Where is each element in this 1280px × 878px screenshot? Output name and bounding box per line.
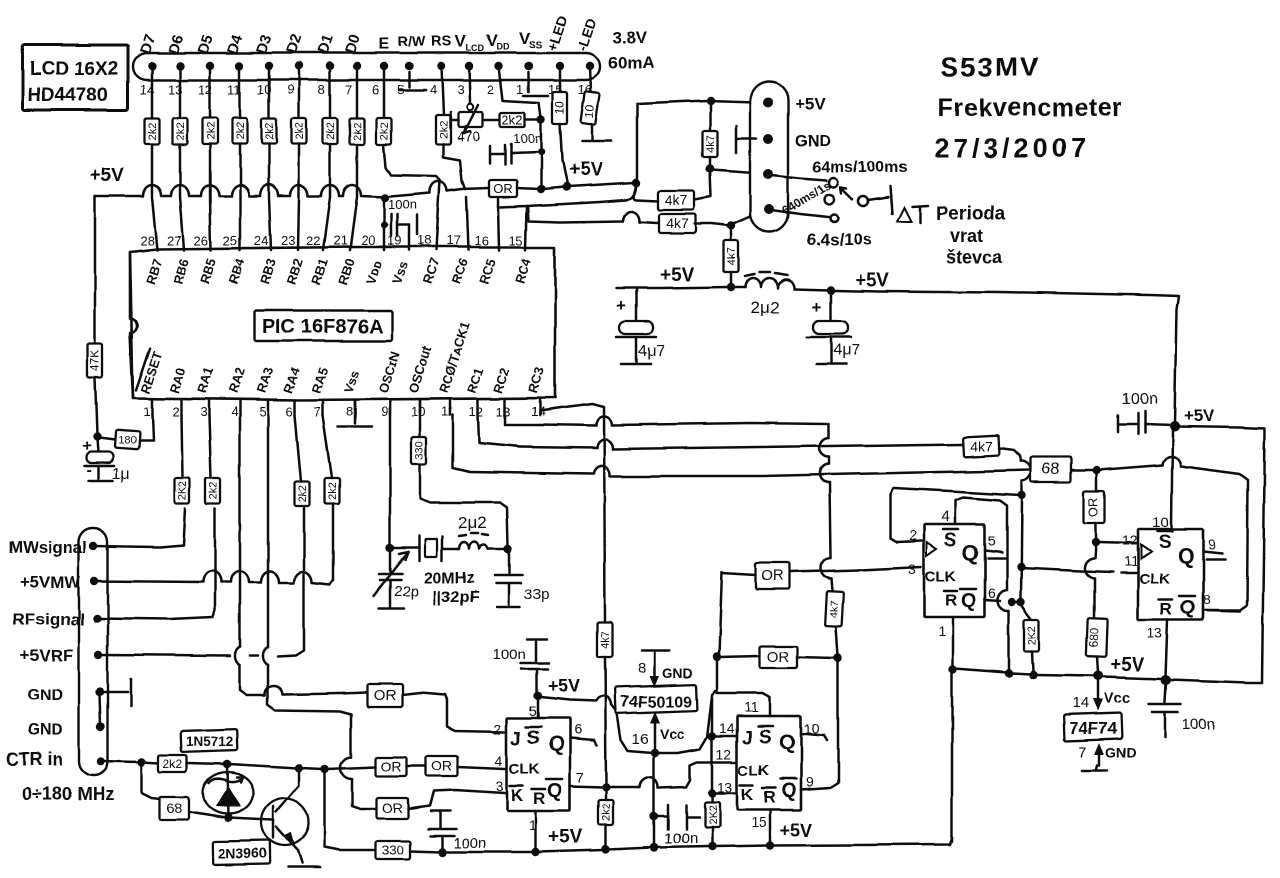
wire 68 to diode bottom node xyxy=(189,812,232,822)
wire E resistor to PIC pin 18 xyxy=(384,144,440,250)
wire DFF1 R pin1 to +5V xyxy=(949,617,957,673)
svg-text:4: 4 xyxy=(231,404,238,419)
svg-text:S53MV: S53MV xyxy=(941,52,1040,82)
wire CLK line DFF2 xyxy=(1021,568,1136,573)
svg-text:Q: Q xyxy=(548,733,564,756)
svg-text:+: + xyxy=(82,438,91,455)
wire node down to Q6 line xyxy=(1017,497,1025,606)
capacitor 100n (74F50109) xyxy=(656,805,699,847)
svg-text:OR: OR xyxy=(767,649,790,666)
svg-text:OR: OR xyxy=(1086,497,1101,517)
svg-text:100n: 100n xyxy=(664,830,697,847)
ground at J3 GND pin xyxy=(736,126,756,153)
diode D1 schottky in circle xyxy=(203,764,253,818)
svg-text:100n: 100n xyxy=(453,835,486,852)
node +5V middle xyxy=(827,286,835,294)
OR box 2 xyxy=(719,646,835,668)
svg-text:2k2: 2k2 xyxy=(352,122,364,140)
svg-text:17: 17 xyxy=(446,233,460,248)
wire VLCD pin to trimmer xyxy=(467,66,473,110)
wire JK1 S pin5 to +5V node xyxy=(534,692,542,718)
svg-text:3: 3 xyxy=(908,561,916,577)
resistor 330 (osc) xyxy=(412,437,427,464)
connector J3 pin dots xyxy=(763,98,774,214)
svg-text:RFsignal: RFsignal xyxy=(13,610,85,629)
resistor 2k2 (E) xyxy=(377,118,392,144)
svg-text:5: 5 xyxy=(988,533,996,549)
svg-text:2k2: 2k2 xyxy=(208,482,220,500)
wire OR chain vertical to DFF1 clk line xyxy=(719,572,756,655)
resistor 2K2 (DFF pullup) xyxy=(1021,604,1040,672)
input connector J2 oval xyxy=(79,528,108,775)
resistor 68 (output) xyxy=(1031,457,1071,482)
OR box 1 xyxy=(367,684,402,707)
wire +LED pin down xyxy=(559,66,562,92)
wire 68 to node xyxy=(1071,466,1101,474)
svg-text:Vcc: Vcc xyxy=(1104,690,1131,707)
JK1 pin labels xyxy=(509,727,564,808)
svg-text:24: 24 xyxy=(254,233,268,248)
svg-text:Perioda: Perioda xyxy=(936,204,1006,225)
capacitor 1u electrolytic xyxy=(82,438,130,483)
svg-text:15: 15 xyxy=(751,814,767,830)
svg-text:GND: GND xyxy=(27,687,63,704)
wire +5V top right segment xyxy=(1169,421,1265,431)
svg-text:19: 19 xyxy=(387,233,401,248)
svg-text:R/W: R/W xyxy=(398,33,426,49)
resistor 330 (bottom) xyxy=(376,841,410,859)
svg-text:7: 7 xyxy=(1079,744,1087,761)
svg-text:vrat: vrat xyxy=(950,226,983,246)
svg-text:-: - xyxy=(805,327,811,346)
wire collector node down to 330 xyxy=(325,771,376,850)
resistor 4k7 (switch pullup) xyxy=(703,103,718,173)
LCD connector pin dots xyxy=(148,62,594,70)
svg-text:4k7: 4k7 xyxy=(829,600,842,618)
connector J2 labels xyxy=(5,538,114,804)
wire pot to 2k2 xyxy=(483,119,500,122)
DFF1 symbols xyxy=(925,529,979,612)
svg-text:8: 8 xyxy=(346,404,353,419)
ground at -LED resistor xyxy=(582,124,611,141)
resistor 68 (CTR) xyxy=(160,797,189,820)
svg-text:16: 16 xyxy=(632,731,649,748)
svg-text:5: 5 xyxy=(259,404,266,419)
+5V bus right segment xyxy=(955,668,1262,683)
wire RA0 resistor to PIC pin2 xyxy=(181,415,182,478)
wire CTR to 68 xyxy=(142,764,160,799)
resistor 47k xyxy=(88,344,103,378)
wire OR1 to JK1 J pin2 xyxy=(402,693,505,732)
resistor 2k2 (CTR) xyxy=(142,755,187,772)
wire 4k7 jog down to D node xyxy=(999,448,1032,499)
svg-text:+: + xyxy=(812,298,822,317)
svg-text:OR: OR xyxy=(381,758,402,774)
ground at PIC pin8 VSS xyxy=(338,400,372,427)
svg-text:MWsignal: MWsignal xyxy=(8,538,87,557)
IC label 74F74 with Vcc GND arrows xyxy=(1064,681,1138,771)
transistor Q1 2N3960 xyxy=(261,785,309,863)
resistor 2k2 (RA0) xyxy=(175,478,190,504)
svg-text:2K2: 2K2 xyxy=(1027,626,1039,646)
svg-text:4μ7: 4μ7 xyxy=(833,342,860,359)
wire OR to +5V node right xyxy=(517,179,640,191)
wire JK2 J pin14 and K pin13 tie xyxy=(708,695,737,797)
svg-text:Frekvencmeter: Frekvencmeter xyxy=(938,94,1122,122)
svg-text:+5V: +5V xyxy=(1110,655,1145,676)
wire 4k7 to OR2 node xyxy=(834,626,842,662)
ground at LCD pin 5 xyxy=(399,72,425,90)
svg-text:1μ: 1μ xyxy=(112,466,130,483)
svg-text:22: 22 xyxy=(306,233,320,248)
wire pullup node to connector pin3 xyxy=(712,170,766,174)
svg-text:Q: Q xyxy=(962,540,979,565)
svg-text:CTR in: CTR in xyxy=(5,749,63,769)
svg-text:1N5712: 1N5712 xyxy=(186,734,233,749)
svg-text:100n: 100n xyxy=(1182,716,1215,733)
wire OR box to pin16 RC5 xyxy=(498,198,499,250)
svg-text:2K2: 2K2 xyxy=(707,805,719,825)
svg-text:8: 8 xyxy=(1203,591,1211,607)
svg-text:6: 6 xyxy=(988,585,996,601)
svg-text:+5V: +5V xyxy=(660,265,695,286)
svg-text:LCD: LCD xyxy=(466,43,485,53)
svg-text:2k2: 2k2 xyxy=(438,121,450,139)
svg-text:1: 1 xyxy=(143,404,150,419)
connector J3 oval xyxy=(750,82,788,232)
OR box (DFF1 clock) xyxy=(756,563,790,589)
svg-text:2k2: 2k2 xyxy=(327,482,339,500)
JK2 pin numbers xyxy=(716,699,820,830)
svg-text:K: K xyxy=(511,786,524,805)
svg-text:J: J xyxy=(742,728,753,749)
svg-text:4k7: 4k7 xyxy=(666,215,689,231)
resistor 2k2 (RA5) xyxy=(323,415,340,580)
wire y1 down right column xyxy=(819,424,833,591)
svg-text:10: 10 xyxy=(411,404,425,419)
svg-text:11: 11 xyxy=(744,699,759,715)
svg-text:1: 1 xyxy=(938,623,946,639)
LCD labels +LED -LED xyxy=(544,14,599,53)
svg-text:3: 3 xyxy=(457,82,464,97)
potentiometer 470 (contrast) xyxy=(450,105,483,144)
resistor 4k7 (spine) xyxy=(598,622,613,657)
svg-text:18: 18 xyxy=(417,233,431,248)
svg-text:3.8V: 3.8V xyxy=(612,28,648,47)
wire 10R to +5V node xyxy=(560,124,567,185)
svg-text:S: S xyxy=(944,530,957,551)
svg-text:2N3960: 2N3960 xyxy=(218,845,267,861)
wire -LED pin down xyxy=(590,66,591,92)
+5V label top-left xyxy=(90,165,125,186)
JK2 pin labels xyxy=(738,726,797,807)
inductor L1 2u2 xyxy=(442,513,506,549)
resistor 2k2 (LCD data 1) xyxy=(145,118,160,144)
svg-text:+5V: +5V xyxy=(1183,406,1214,425)
PIC top pin numbers xyxy=(140,233,523,248)
connector J2 pin dots xyxy=(90,542,105,765)
wire RS resistor to OR node xyxy=(443,144,462,181)
wire Vcc node down to 100n and +5V xyxy=(650,755,658,846)
wire JK1 Q7 to JK2 CLK12 xyxy=(570,762,735,788)
svg-text:S: S xyxy=(1158,532,1171,553)
svg-text:2: 2 xyxy=(487,82,494,97)
svg-text:4μ7: 4μ7 xyxy=(638,343,665,360)
resistor 2k2 (spine pullup) xyxy=(599,789,614,847)
+5V bus wire with wire hops xyxy=(95,181,489,197)
svg-text:+5VRF: +5VRF xyxy=(20,646,73,665)
flip-flop U3a 74F74 DFF1 body xyxy=(924,524,985,617)
+5V label top right xyxy=(1183,406,1214,425)
+5V label right bus xyxy=(1110,655,1145,676)
OR box 5 xyxy=(426,756,458,776)
resistor 2k2 (JK2 pullup) xyxy=(705,795,720,845)
resistor 2k2 (LCD data 7) xyxy=(323,118,338,144)
wire MWsignal to 2k2/RA0 xyxy=(94,509,185,547)
PIC label box xyxy=(254,310,392,341)
svg-text:33p: 33p xyxy=(524,586,549,603)
svg-text:27: 27 xyxy=(167,233,181,248)
svg-text:OR: OR xyxy=(382,800,403,816)
+5V label JK1 xyxy=(548,676,581,696)
ground at transistor emitter xyxy=(288,866,320,869)
svg-text:GND: GND xyxy=(662,665,693,681)
switch labels xyxy=(779,159,907,249)
wire spine below 4k7 xyxy=(602,657,610,791)
svg-text:4k7: 4k7 xyxy=(970,438,993,454)
svg-text:R: R xyxy=(1160,600,1172,619)
JK1 pin numbers xyxy=(494,703,584,833)
wire +5V from middle to top right xyxy=(834,290,1178,424)
svg-text:Q: Q xyxy=(781,780,797,802)
resistor 4k7 (to D-FF1) xyxy=(963,435,1000,457)
flip-flop U2b 74F50109 JK2 body xyxy=(737,716,801,810)
svg-text:100n: 100n xyxy=(1122,391,1158,408)
svg-text:470: 470 xyxy=(457,128,481,144)
capacitor 100n (JK1 top) xyxy=(492,639,549,694)
svg-text:5: 5 xyxy=(529,703,537,719)
+5V label bottom middle xyxy=(548,827,583,848)
+5V label middle xyxy=(855,270,890,291)
DFF2 pin numbers xyxy=(1122,514,1216,641)
svg-text:Q: Q xyxy=(961,590,977,612)
resistor 2k2 (contrast) xyxy=(500,113,525,128)
flip-flop U3b 74F74 DFF2 body xyxy=(1138,529,1203,620)
node crystal right xyxy=(504,545,512,553)
capacitor 4u7 (right) xyxy=(805,292,860,364)
delta T label xyxy=(897,204,1006,267)
svg-text:R: R xyxy=(763,788,775,807)
svg-text:LCD 16X2: LCD 16X2 xyxy=(30,59,119,80)
PIC bottom pin numbers xyxy=(143,404,545,419)
inductor L2 2u2 xyxy=(727,272,829,317)
svg-text:Q: Q xyxy=(547,780,563,802)
svg-text:2k2: 2k2 xyxy=(163,757,183,771)
svg-text:GND: GND xyxy=(27,722,63,739)
svg-text:OR: OR xyxy=(493,181,513,196)
svg-text:12: 12 xyxy=(716,746,732,762)
svg-text:števca: števca xyxy=(946,247,1003,267)
wire OR node to pin17 xyxy=(462,181,468,250)
switch S1 contact 6.4s xyxy=(771,210,838,222)
resistor 180 (reset) xyxy=(99,430,140,450)
wire LCD VDD pin to node xyxy=(499,66,541,118)
ground arrow 74F50109 pin8 xyxy=(637,651,693,688)
trimmer capacitor 22p xyxy=(373,548,419,609)
wire +5V bus bottom right riser xyxy=(951,671,954,841)
wire RA3 down xyxy=(263,415,376,809)
wire OSCout to 330 xyxy=(419,400,422,437)
svg-text:S: S xyxy=(759,727,772,748)
svg-text:4: 4 xyxy=(941,508,949,525)
svg-text:2k2: 2k2 xyxy=(205,122,217,140)
svg-text:DD: DD xyxy=(497,42,510,52)
wire diode to transistor base xyxy=(228,818,272,820)
OR box (DFF2, vertical) xyxy=(1084,472,1105,546)
IC U1 PIC16F876A body xyxy=(130,247,555,400)
wire JK2 R pin15 to +5V xyxy=(769,810,772,843)
svg-text:CLK: CLK xyxy=(738,762,769,779)
svg-text:4k7: 4k7 xyxy=(665,192,688,208)
svg-text:GND: GND xyxy=(795,133,831,150)
wire bus to PIC pin 20 VDD xyxy=(383,198,386,250)
wire RC1 pin12 bus y2 xyxy=(478,415,962,449)
svg-text:12: 12 xyxy=(1122,532,1138,548)
wire RC0 pin11 bus y3 xyxy=(453,415,1031,476)
PIC bottom pin names xyxy=(136,320,548,395)
svg-text:||32pF: ||32pF xyxy=(433,589,480,606)
LCD labels E RW RS VLCD VDD VSS xyxy=(379,29,543,53)
wire node down through hop to 680 xyxy=(1084,544,1096,618)
svg-text:60mA: 60mA xyxy=(608,53,654,72)
svg-text:22p: 22p xyxy=(394,583,419,600)
svg-text:4k7: 4k7 xyxy=(705,135,717,153)
wire +5V top to connector xyxy=(636,104,639,181)
wire DFF1 S pin4 loop to +5V xyxy=(955,497,1009,671)
svg-text:9: 9 xyxy=(1208,536,1216,552)
LCD module label box LCD 16X2 HD44780 xyxy=(23,45,128,110)
svg-text:26: 26 xyxy=(194,233,208,248)
LCD backlight rating 3.8V 60mA xyxy=(608,28,654,72)
ground at GND pin xyxy=(100,679,131,706)
svg-text:100n: 100n xyxy=(513,131,542,146)
svg-text:2μ2: 2μ2 xyxy=(752,298,781,317)
svg-text:330: 330 xyxy=(382,843,404,858)
line B to 4k7 (switch row2) xyxy=(528,206,658,223)
svg-text:23: 23 xyxy=(281,233,295,248)
wire CTR in to split node xyxy=(101,758,146,766)
svg-text:9: 9 xyxy=(806,774,814,790)
wires LCD data pins down to resistors xyxy=(152,66,357,118)
PIC top pin names xyxy=(143,256,535,286)
wire GND link xyxy=(100,694,101,727)
svg-text:CLK: CLK xyxy=(1139,571,1170,588)
svg-text:GND: GND xyxy=(1106,745,1137,761)
wire +5VRF to 2k2/RA4 xyxy=(99,506,304,656)
wire node to DFF2 D pin12 xyxy=(1098,542,1136,543)
svg-text:4: 4 xyxy=(495,753,503,769)
svg-text:15: 15 xyxy=(509,233,523,248)
svg-text:11: 11 xyxy=(1124,553,1139,569)
+5V label left of inductor xyxy=(660,265,695,286)
wire RFsignal to 2k2/RA1 xyxy=(97,509,215,619)
resistor 10 (-LED) xyxy=(581,91,600,125)
resistor 680 xyxy=(1086,618,1107,658)
wire LCD E pin down xyxy=(383,66,386,118)
resistor 2k2 (LCD data 2) xyxy=(173,118,188,144)
svg-text:20: 20 xyxy=(361,233,375,248)
svg-text:HD44780: HD44780 xyxy=(28,85,108,106)
svg-text:10: 10 xyxy=(553,101,567,115)
svg-text:J: J xyxy=(511,729,522,750)
wire row1 to +5V node jog xyxy=(634,185,658,201)
capacitor 100n (LCD supply) xyxy=(490,131,542,164)
svg-text:+5V: +5V xyxy=(795,95,826,114)
svg-text:OR: OR xyxy=(432,758,453,774)
svg-text:2k2: 2k2 xyxy=(147,122,159,140)
svg-text:2k2: 2k2 xyxy=(297,485,309,503)
OR box 3 xyxy=(376,798,408,819)
svg-text:SS: SS xyxy=(529,40,543,51)
LCD connector J1 oval xyxy=(133,53,600,80)
svg-text:PIC 16F876A: PIC 16F876A xyxy=(262,316,383,338)
svg-text:OR: OR xyxy=(762,568,785,585)
svg-text:OR: OR xyxy=(373,687,396,704)
svg-text:2k2: 2k2 xyxy=(502,113,523,128)
PIC bottom pin stub wires xyxy=(152,400,540,415)
svg-text:CLK: CLK xyxy=(509,761,540,778)
svg-text:RS: RS xyxy=(431,33,452,50)
resistor 2k2 (LCD data 5) xyxy=(262,118,277,144)
LCD signal labels D7..D0 xyxy=(137,32,364,56)
svg-text:7: 7 xyxy=(314,404,321,419)
svg-text:K: K xyxy=(741,785,754,804)
wire OSCin to crystal xyxy=(386,400,418,552)
wire diode node to collector node xyxy=(229,764,303,785)
wire to PIC pin 19 VSS xyxy=(408,225,411,250)
wire 47k to reset node xyxy=(93,378,101,441)
resistor 2k2 (LCD data 6) xyxy=(292,118,307,144)
JK2 Q pin10 stub xyxy=(801,734,827,741)
capacitor 100n (top right) xyxy=(1118,391,1172,434)
svg-text:2k2: 2k2 xyxy=(264,122,276,140)
svg-text:20MHz: 20MHz xyxy=(424,570,475,587)
svg-text:R: R xyxy=(533,789,545,808)
svg-text:+5V: +5V xyxy=(855,270,890,291)
wire node down to 4k7 row1 xyxy=(694,171,711,200)
diode D1 1N5712 label xyxy=(181,729,238,752)
resistor 4k7 (divider) xyxy=(724,222,739,285)
switch S1 pole xyxy=(858,186,892,214)
node VDD bus junction xyxy=(381,194,389,202)
svg-text:2k2: 2k2 xyxy=(175,122,187,140)
connector J3 labels xyxy=(795,95,831,150)
wire VDD node down xyxy=(537,122,545,193)
flip-flop U2a 74F50109 JK1 body xyxy=(507,718,570,811)
resistor 2k2 (RA4) xyxy=(295,415,310,506)
line A pin16/pin15 to +5V node xyxy=(499,185,636,207)
wire OR5 to JK1 CLK pin4 xyxy=(458,767,505,769)
wire OR4 to OR5 xyxy=(407,765,426,768)
svg-text:68: 68 xyxy=(167,800,183,816)
svg-text:6: 6 xyxy=(574,721,582,737)
svg-text:10: 10 xyxy=(1152,514,1169,531)
wire +5V wavy to 74F50109 Vcc node xyxy=(541,691,715,757)
svg-text:7: 7 xyxy=(345,82,352,97)
wire JK1 R pin1 to +5V xyxy=(534,811,537,850)
svg-text:100n: 100n xyxy=(492,646,525,663)
svg-text:+5V: +5V xyxy=(548,676,581,696)
